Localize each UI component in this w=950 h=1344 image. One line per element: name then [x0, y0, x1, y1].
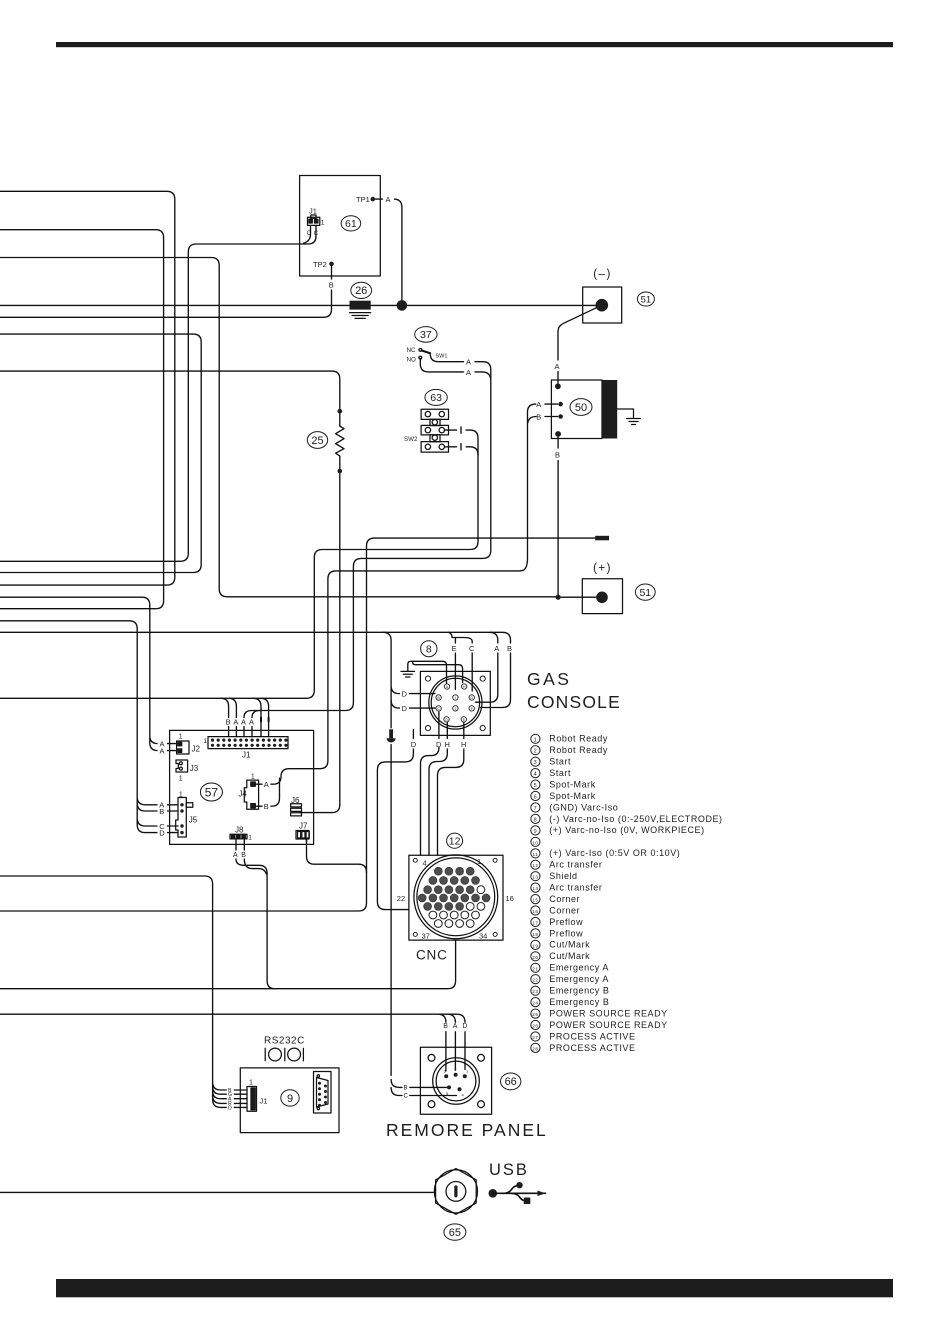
- board 9 outline: [240, 1068, 339, 1133]
- white gaps plus labels for J5 wires: [158, 800, 168, 837]
- svg-text:Corner: Corner: [549, 905, 580, 915]
- svg-text:B: B: [555, 451, 560, 460]
- svg-text:D: D: [436, 740, 442, 749]
- svg-text:D: D: [228, 1106, 232, 1112]
- svg-text:REMORE PANEL: REMORE PANEL: [386, 1120, 548, 1140]
- svg-text:1: 1: [321, 220, 325, 227]
- white gaps plus labels for J2 wires: [158, 739, 168, 756]
- svg-text:D: D: [445, 718, 448, 722]
- wire branch A of W14: [476, 632, 498, 702]
- legend row 5: [531, 779, 596, 789]
- wire gas console ground to pin A: [408, 661, 447, 683]
- circle label 12: [447, 833, 463, 848]
- wire W1 left-edge loop: [0, 191, 175, 585]
- CNC pins: [418, 867, 490, 910]
- svg-text:(GND) Varc-Iso: (GND) Varc-Iso: [549, 802, 618, 812]
- legend row 26: [531, 1020, 668, 1030]
- legend row 24: [531, 997, 610, 1007]
- wire conn8 bottom-left D to CNC left: [377, 730, 413, 910]
- wire SW1 NO contact joining bundle: [420, 359, 490, 378]
- svg-text:J8: J8: [235, 825, 244, 834]
- wire J1 pin A stub 2: [229, 698, 237, 736]
- svg-text:A: A: [446, 685, 449, 689]
- svg-text:5: 5: [534, 783, 538, 789]
- svg-text:Spot-Mark: Spot-Mark: [549, 791, 595, 801]
- bottom title bar: [56, 1279, 893, 1297]
- svg-text:28: 28: [532, 1046, 538, 1051]
- svg-text:A: A: [233, 852, 238, 859]
- wire J1 pin B stub: [221, 698, 229, 736]
- resistor R25 zigzag: [336, 426, 344, 456]
- resistor 25 terminal dots: [338, 409, 343, 414]
- svg-text:8: 8: [426, 644, 432, 656]
- svg-text:C: C: [314, 231, 319, 237]
- svg-text:CONSOLE: CONSOLE: [527, 692, 621, 712]
- svg-text:B: B: [404, 1086, 408, 1092]
- svg-text:J5: J5: [189, 816, 198, 825]
- gas console ground symbol: [401, 671, 415, 677]
- svg-text:A: A: [466, 368, 471, 377]
- svg-text:4: 4: [534, 772, 538, 778]
- svg-text:Cut/Mark: Cut/Mark: [549, 951, 590, 961]
- svg-text:Emergency A: Emergency A: [549, 974, 609, 984]
- legend row 21: [531, 963, 609, 973]
- svg-text:D: D: [402, 704, 408, 713]
- circle label 50: [570, 399, 592, 416]
- labels B A D above conn66: [443, 1023, 467, 1030]
- wire J1 pin A stub 3: [252, 711, 260, 737]
- legend row 16: [531, 905, 580, 915]
- labels B C left of conn66: [404, 1086, 409, 1100]
- svg-text:A: A: [386, 195, 391, 204]
- svg-text:16: 16: [506, 894, 514, 903]
- wire conn8 D upper stub: [383, 632, 435, 728]
- svg-text:1: 1: [477, 857, 481, 866]
- svg-text:22: 22: [532, 978, 538, 983]
- svg-text:7: 7: [534, 806, 538, 812]
- svg-text:A: A: [536, 400, 541, 409]
- screw terminal symbol: [387, 729, 396, 742]
- svg-text:B: B: [264, 802, 269, 811]
- svg-text:B: B: [536, 412, 541, 421]
- connector J8: [230, 834, 247, 839]
- svg-text:9: 9: [534, 829, 538, 835]
- svg-text:24: 24: [532, 1001, 538, 1006]
- conn8 pins with letters: [436, 684, 475, 722]
- svg-text:A: A: [494, 644, 499, 653]
- board U61 outline: [300, 176, 381, 277]
- svg-text:Corner: Corner: [549, 894, 580, 904]
- wire comp50 A/B bundle to J4: [271, 404, 536, 784]
- svg-text:H: H: [445, 740, 450, 749]
- wire J4-B joining bundle: [271, 778, 280, 806]
- wire J8-B joining bundle: [244, 839, 266, 874]
- svg-text:J1: J1: [260, 1097, 268, 1106]
- legend row 27: [531, 1031, 636, 1041]
- svg-text:PROCESS ACTIVE: PROCESS ACTIVE: [549, 1043, 635, 1053]
- wire SW2 lower contact: [445, 444, 462, 450]
- svg-text:20: 20: [532, 955, 538, 960]
- terminal 51 minus: box and stud: [583, 287, 622, 323]
- svg-text:B: B: [226, 718, 231, 727]
- circle label 8: [421, 641, 437, 657]
- wire J4-A stub: [256, 784, 262, 806]
- wire W2 left-edge loop: [0, 230, 164, 609]
- svg-text:NO: NO: [407, 357, 416, 364]
- legend row 7: [531, 802, 619, 812]
- wire comp50 bottom pin B to junction: [557, 437, 559, 596]
- wire J7 internal stub: [306, 839, 308, 842]
- legend row 22: [531, 974, 609, 984]
- svg-text:1: 1: [466, 1069, 469, 1074]
- legend row 10: [531, 837, 540, 846]
- svg-text:C: C: [404, 1094, 409, 1100]
- svg-text:A: A: [453, 1023, 458, 1030]
- svg-text:J6: J6: [291, 796, 300, 805]
- svg-text:J: J: [455, 707, 457, 711]
- svg-text:16: 16: [532, 909, 538, 914]
- circle label 63: [425, 389, 447, 405]
- legend row 17: [531, 917, 583, 927]
- svg-text:D: D: [159, 828, 165, 837]
- svg-text:B: B: [241, 852, 246, 859]
- svg-text:1: 1: [249, 1080, 253, 1087]
- circle label 57: [200, 783, 222, 801]
- svg-text:SW2: SW2: [404, 436, 418, 443]
- circle label 65: [444, 1224, 466, 1240]
- legend row 13: [531, 871, 578, 881]
- svg-text:Robot Ready: Robot Ready: [549, 745, 608, 755]
- labels B A A A above J1 header: [226, 718, 254, 727]
- wire W18 to CNC connector: [0, 940, 456, 989]
- circle label 51 minus: [637, 292, 654, 306]
- svg-text:B: B: [507, 644, 512, 653]
- wire branch SW2 lower contact: [466, 447, 478, 455]
- wire conn8 D lower stub: [391, 700, 435, 708]
- svg-text:1: 1: [248, 834, 252, 841]
- connector J5: [176, 798, 193, 838]
- svg-text:1: 1: [534, 737, 538, 743]
- TP1 test point: [371, 197, 376, 202]
- svg-text:Emergency A: Emergency A: [549, 963, 609, 973]
- svg-text:12: 12: [532, 863, 538, 868]
- svg-text:11: 11: [532, 852, 538, 857]
- circle label 51 plus: [635, 584, 655, 600]
- board 57 outline: [170, 730, 314, 844]
- svg-text:Cut/Mark: Cut/Mark: [549, 940, 590, 950]
- svg-text:(+) Varc-Iso (0:5V OR 0:10V): (+) Varc-Iso (0:5V OR 0:10V): [549, 848, 680, 858]
- svg-text:9: 9: [287, 1093, 293, 1105]
- remote panel connector 66: [420, 1047, 491, 1114]
- svg-text:(–): (–): [593, 269, 612, 281]
- wire sub-bundle E C of W14: [448, 632, 472, 691]
- legend row 15: [531, 894, 580, 904]
- svg-text:Emergency B: Emergency B: [549, 986, 609, 996]
- svg-text:26: 26: [532, 1024, 538, 1029]
- svg-text:H: H: [461, 740, 466, 749]
- svg-text:4: 4: [423, 859, 427, 868]
- svg-text:26: 26: [355, 285, 367, 297]
- wire W19 to remote panel top pins: [0, 1014, 465, 1071]
- svg-text:TP2: TP2: [313, 260, 327, 269]
- svg-text:17: 17: [532, 921, 538, 926]
- svg-text:14: 14: [532, 886, 538, 891]
- svg-text:(+) Varc-no-Iso (0V, WORKPIECE: (+) Varc-no-Iso (0V, WORKPIECE): [549, 825, 704, 835]
- svg-text:25: 25: [532, 1012, 538, 1017]
- svg-text:1: 1: [179, 776, 183, 783]
- svg-text:USB: USB: [489, 1161, 529, 1179]
- connector J1 on board 61: [308, 215, 320, 225]
- svg-text:B: B: [159, 807, 164, 816]
- wire W15 drops to J1 pins 5,6: [253, 698, 269, 716]
- svg-text:6: 6: [534, 795, 538, 801]
- svg-text:18: 18: [532, 932, 538, 937]
- wire conn8 bottom right H to CNC top: [438, 723, 464, 856]
- ferrite filter 26: [350, 301, 371, 319]
- wire comp50 top pin to (-) terminal: [558, 305, 602, 383]
- svg-text:Spot-Mark: Spot-Mark: [549, 779, 595, 789]
- wire W6 left-edge loop: [0, 334, 201, 572]
- svg-text:1: 1: [204, 738, 208, 745]
- svg-text:A: A: [241, 718, 246, 727]
- wire J1-C return to left edge: [0, 226, 316, 562]
- legend row 3: [531, 757, 571, 767]
- svg-text:66: 66: [505, 1076, 517, 1088]
- svg-text:2: 2: [534, 749, 538, 755]
- svg-text:J1: J1: [242, 751, 251, 760]
- connector J4: [244, 780, 258, 809]
- connector J7: [296, 831, 309, 840]
- junction dot at plus terminal wire: [556, 595, 561, 600]
- wire W13 to J5: [0, 621, 178, 833]
- wire W20 to USB: [0, 1191, 433, 1193]
- svg-text:POWER SOURCE READY: POWER SOURCE READY: [549, 1020, 667, 1030]
- tick marks on J1 pins 5,6: [261, 718, 269, 722]
- circle label 26: [351, 282, 372, 298]
- svg-text:63: 63: [430, 392, 442, 404]
- svg-text:J4: J4: [238, 790, 247, 799]
- DB9 connector on board 9: [314, 1072, 332, 1114]
- circle label 61: [341, 216, 361, 231]
- svg-text:1: 1: [251, 774, 255, 781]
- ground symbol at power block 50: [617, 409, 640, 425]
- svg-text:B: B: [437, 696, 440, 700]
- connector J1 header on board 57: [208, 737, 288, 749]
- svg-text:22: 22: [397, 894, 405, 903]
- svg-text:A: A: [233, 718, 238, 727]
- svg-text:3: 3: [534, 760, 538, 766]
- svg-text:37: 37: [420, 329, 432, 341]
- wire W14 bundle to gas console connector 8: [0, 632, 511, 707]
- circle label 66: [501, 1073, 521, 1090]
- wire W15 bundle to J1 pins and SW2: [0, 430, 478, 698]
- switch block SW2 (63): [421, 409, 448, 452]
- svg-text:8: 8: [534, 817, 538, 823]
- circle label 9: [281, 1090, 299, 1106]
- svg-text:Arc transfer: Arc transfer: [549, 883, 602, 893]
- svg-text:50: 50: [575, 402, 587, 414]
- legend row 12: [531, 860, 603, 870]
- legend row 19: [531, 940, 590, 950]
- wire W17 to isolation bar: [0, 538, 595, 911]
- svg-text:19: 19: [532, 943, 538, 948]
- svg-text:51: 51: [639, 587, 651, 599]
- svg-text:Arc transfer: Arc transfer: [549, 860, 602, 870]
- svg-text:10: 10: [532, 840, 538, 845]
- legend row 8: [531, 814, 723, 824]
- legend row 14: [531, 883, 603, 893]
- svg-text:B: B: [329, 281, 334, 290]
- legend row 9: [531, 825, 705, 835]
- svg-text:C: C: [437, 707, 440, 711]
- wire W5 to TP2: [0, 267, 332, 318]
- wire conn8 bottom D to CNC top: [421, 712, 439, 855]
- svg-text:PROCESS ACTIVE: PROCESS ACTIVE: [549, 1031, 635, 1041]
- svg-text:E: E: [463, 718, 466, 722]
- svg-text:C: C: [469, 644, 475, 653]
- wire W3 to (+) junction: [0, 258, 557, 597]
- svg-text:37: 37: [422, 931, 430, 940]
- legend row 2: [531, 745, 608, 755]
- wire J8-A to W18: [236, 839, 275, 989]
- svg-text:Preflow: Preflow: [549, 917, 583, 927]
- svg-text:D: D: [411, 740, 417, 749]
- svg-text:J1: J1: [309, 207, 317, 216]
- legend list: [531, 734, 723, 1053]
- svg-text:Start: Start: [549, 757, 571, 767]
- USB trident symbol: [489, 1182, 546, 1204]
- USB bulkhead 65: [434, 1169, 477, 1215]
- svg-text:D: D: [462, 1023, 467, 1030]
- svg-text:57: 57: [205, 786, 219, 800]
- top title bar: [56, 42, 893, 47]
- svg-text:21: 21: [532, 966, 538, 971]
- svg-text:TP1: TP1: [356, 195, 370, 204]
- svg-text:SW1: SW1: [436, 354, 448, 360]
- wire W4 to (-) output terminal: [0, 304, 601, 306]
- svg-text:Emergency B: Emergency B: [549, 997, 609, 1007]
- wire W11 to J2: [0, 597, 177, 750]
- wire comp50 B stub joining bundle: [528, 417, 537, 424]
- circle label 37: [415, 327, 437, 343]
- circle label 25: [307, 432, 327, 449]
- svg-text:A: A: [264, 780, 269, 789]
- legend row 11: [531, 848, 681, 858]
- wire comp50 A stub right part: [545, 404, 558, 416]
- gas console connector 8: [420, 671, 490, 735]
- switch SW1 contacts: [419, 349, 431, 360]
- svg-text:A: A: [249, 718, 254, 727]
- svg-text:Preflow: Preflow: [549, 928, 583, 938]
- connector J3: [176, 760, 188, 772]
- svg-text:1: 1: [179, 734, 183, 741]
- svg-text:12: 12: [449, 835, 461, 847]
- wire TP1-A to node: [375, 199, 402, 303]
- wire W7 through resistor 25 to J6: [0, 371, 340, 812]
- svg-text:CNC: CNC: [416, 948, 448, 963]
- wire conn8 lower-D via screw down to remote panel: [391, 745, 456, 1096]
- legend row 6: [531, 791, 596, 801]
- svg-text:27: 27: [532, 1035, 538, 1040]
- RS232C symbol: [265, 1048, 303, 1061]
- legend row 20: [531, 951, 590, 961]
- svg-text:13: 13: [532, 875, 538, 880]
- svg-text:D: D: [402, 689, 408, 698]
- tiny pin letters on RS232 wires: [227, 1086, 234, 1111]
- wire SW2 upper contact: [445, 427, 462, 433]
- wire SW1 lever to J1 pin A: [244, 353, 491, 717]
- CNC connector 12: [409, 855, 503, 940]
- svg-text:15: 15: [532, 898, 538, 903]
- legend row 28: [531, 1043, 636, 1053]
- node junction dot: [397, 300, 408, 311]
- svg-text:D: D: [470, 696, 473, 700]
- legend row 4: [531, 768, 571, 778]
- svg-text:Robot Ready: Robot Ready: [549, 734, 608, 744]
- svg-text:Shield: Shield: [549, 871, 577, 881]
- svg-text:A: A: [160, 747, 165, 756]
- svg-text:61: 61: [345, 218, 357, 230]
- svg-text:I: I: [455, 696, 456, 700]
- svg-text:C: C: [307, 231, 312, 237]
- connector J2: [177, 741, 189, 754]
- svg-text:1: 1: [179, 791, 183, 798]
- svg-text:RS232C: RS232C: [264, 1036, 305, 1047]
- svg-text:34: 34: [479, 931, 487, 940]
- legend row 1: [531, 734, 608, 744]
- TP2 test point: [329, 262, 334, 267]
- svg-text:J7: J7: [299, 821, 308, 830]
- conn66 tiny pin numbers: [444, 1067, 470, 1098]
- legend row 18: [531, 928, 583, 938]
- svg-text:B: B: [443, 1023, 448, 1030]
- wire gas console shield to pin H: [413, 662, 463, 683]
- svg-text:2: 2: [454, 1067, 457, 1072]
- svg-text:A: A: [466, 358, 471, 367]
- svg-text:65: 65: [449, 1227, 461, 1239]
- legend row 25: [531, 1008, 668, 1018]
- svg-text:E: E: [452, 644, 457, 653]
- connector J6: [291, 804, 302, 816]
- wire conn8 bottom H to CNC top: [429, 723, 447, 856]
- svg-text:A: A: [555, 362, 560, 371]
- legend row 23: [531, 986, 610, 996]
- wire J1 pin A stub 4 lower part: [243, 727, 245, 737]
- svg-text:51: 51: [641, 295, 652, 306]
- terminal 51 plus: box and stud: [582, 579, 622, 614]
- svg-text:J2: J2: [192, 745, 201, 754]
- svg-text:23: 23: [532, 989, 538, 994]
- wire J1 pins 5 6 lower parts: [261, 722, 269, 737]
- svg-text:J3: J3: [190, 764, 199, 773]
- svg-text:GAS: GAS: [527, 669, 571, 689]
- svg-text:(+): (+): [593, 563, 612, 575]
- isolation bar: [595, 536, 609, 541]
- svg-text:25: 25: [311, 435, 323, 447]
- svg-text:(-) Varc-no-Iso (0:-250V,ELECT: (-) Varc-no-Iso (0:-250V,ELECTRODE): [549, 814, 722, 824]
- svg-text:H: H: [463, 685, 466, 689]
- J1 header on board 9: [247, 1087, 257, 1112]
- svg-text:Start: Start: [549, 768, 571, 778]
- wire junction to (+) terminal: [558, 596, 600, 598]
- wire branch to J7: [307, 839, 367, 872]
- power block 50: [551, 380, 617, 439]
- svg-text:POWER SOURCE READY: POWER SOURCE READY: [549, 1008, 667, 1018]
- wire W16 to RS232C: [0, 876, 247, 1107]
- svg-text:4: 4: [462, 1093, 465, 1098]
- svg-text:NC: NC: [407, 347, 416, 354]
